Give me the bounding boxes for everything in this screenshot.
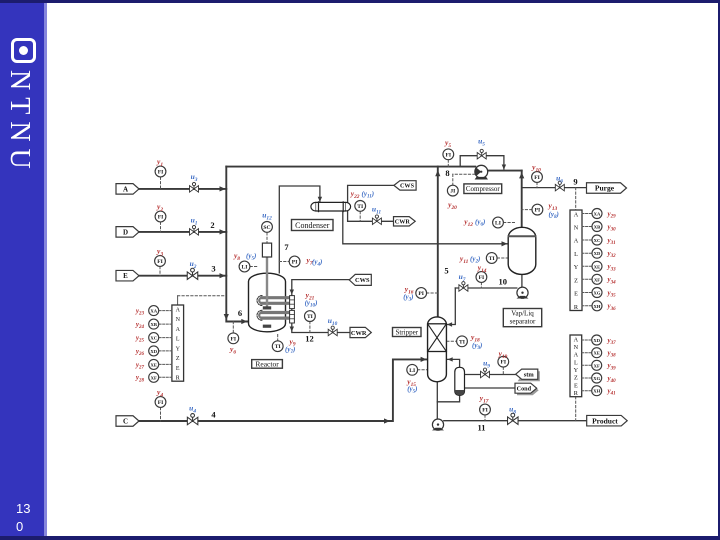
- svg-text:8: 8: [445, 168, 449, 178]
- stub analyzer purge XC: [582, 239, 592, 241]
- svg-text:FI: FI: [482, 408, 488, 414]
- instrument TI y18 (stripper temp): [457, 336, 468, 347]
- svg-text:y29: y29: [607, 210, 617, 220]
- valve u10 reactor CW: [328, 326, 337, 336]
- stub analyzer purge XD: [582, 252, 592, 254]
- instrument analyzer product XG: [592, 373, 602, 383]
- instrument TI y22 (condenser CW temp): [355, 201, 366, 212]
- instrument analyzer reactor feed XC: [149, 333, 159, 343]
- svg-text:L: L: [176, 337, 180, 343]
- instrument analyzer purge XF: [592, 274, 602, 284]
- svg-text:D: D: [123, 228, 128, 236]
- stub FI-y5: [447, 160, 449, 167]
- wire condenser CWR: [348, 211, 394, 221]
- svg-text:Product: Product: [592, 416, 618, 425]
- svg-text:y12: y12: [463, 217, 473, 228]
- stub analyzer reactor feed XE: [159, 363, 172, 365]
- instrument FI y10 (purge): [532, 172, 543, 183]
- svg-text:TI: TI: [459, 339, 465, 345]
- svg-text:u9: u9: [483, 359, 490, 370]
- wire reboiler condensate: [465, 387, 516, 389]
- svg-text:XD: XD: [593, 338, 600, 343]
- svg-text:Z: Z: [574, 277, 578, 284]
- arrow recycle up: [519, 172, 524, 178]
- instrument analyzer reactor feed XE: [149, 359, 159, 369]
- stub FI-A: [160, 177, 162, 189]
- svg-text:Stripper: Stripper: [395, 329, 418, 337]
- svg-text:TI: TI: [489, 256, 495, 262]
- svg-text:5: 5: [444, 266, 448, 276]
- stub SC-agitator: [266, 233, 268, 243]
- wire stripper bottoms: [436, 382, 438, 419]
- svg-text:CWR: CWR: [395, 219, 411, 226]
- svg-text:u10: u10: [328, 316, 338, 327]
- svg-text:y3: y3: [156, 247, 163, 258]
- svg-text:(y5): (y5): [246, 252, 256, 262]
- arrow stream 6 down: [224, 314, 229, 320]
- svg-text:y31: y31: [607, 236, 616, 246]
- wire stream 8 vertical to separator: [521, 171, 523, 228]
- tag feed D: [116, 227, 139, 238]
- svg-text:y34: y34: [607, 276, 617, 286]
- instrument SC agitator u12: [262, 222, 273, 233]
- svg-text:(y5): (y5): [407, 385, 417, 395]
- svg-text:y25: y25: [135, 334, 145, 344]
- stub LI-reactor: [250, 266, 258, 268]
- arrow CW down 2: [290, 327, 294, 332]
- svg-text:y4: y4: [156, 388, 163, 399]
- svg-text:y17: y17: [479, 394, 489, 405]
- svg-text:6: 6: [238, 308, 242, 318]
- compressor: [475, 165, 488, 179]
- stub analyzer product XH: [582, 390, 592, 392]
- svg-text:3: 3: [211, 264, 215, 274]
- svg-text:XA: XA: [594, 212, 601, 217]
- svg-text:FI: FI: [158, 170, 164, 176]
- instrument analyzer reactor feed XD: [149, 346, 159, 356]
- wire D feed to junction: [139, 231, 226, 233]
- svg-text:(y3): (y3): [403, 293, 413, 303]
- svg-text:y10: y10: [531, 163, 541, 174]
- tag feed C: [116, 416, 139, 427]
- svg-text:Z: Z: [574, 375, 578, 382]
- svg-text:y32: y32: [607, 250, 617, 260]
- svg-text:R: R: [176, 376, 180, 382]
- svg-text:y11: y11: [459, 254, 469, 265]
- instrument FI y4 (C feed): [155, 397, 166, 408]
- instrument FI y2 (D feed): [155, 211, 166, 222]
- wire bypass u5: [460, 156, 504, 169]
- svg-text:XG: XG: [594, 291, 601, 296]
- wire stream 6 vertical: [226, 167, 247, 322]
- shadow stm tag: [518, 371, 540, 381]
- svg-text:stm: stm: [524, 372, 535, 379]
- page number 130: [16, 500, 36, 536]
- tag Purge: [587, 183, 627, 194]
- stub analyzer product XE: [582, 352, 592, 354]
- stub analyzer reactor feed XF: [159, 376, 172, 378]
- wire compressor outlet: [487, 170, 521, 172]
- tag condensate: [515, 383, 537, 393]
- svg-text:CWS: CWS: [355, 277, 370, 284]
- svg-text:XB: XB: [151, 322, 157, 327]
- wire reactor CWS: [292, 280, 350, 296]
- svg-text:u7: u7: [459, 272, 466, 283]
- svg-text:FI: FI: [534, 175, 540, 181]
- svg-text:y36: y36: [607, 302, 617, 312]
- valve u1 D feed: [190, 226, 199, 236]
- instrument LI y15 (stripper level): [407, 364, 418, 375]
- svg-text:separator: separator: [510, 318, 536, 326]
- instrument analyzer purge XD: [592, 248, 602, 258]
- instrument TI y9 (reactor temp): [272, 341, 283, 352]
- svg-text:L: L: [574, 359, 578, 366]
- valve u9 steam: [481, 368, 490, 378]
- wire stream 7: [279, 186, 320, 273]
- arrow into reactor: [241, 319, 247, 324]
- stub FI-E: [159, 267, 161, 276]
- svg-text:Z: Z: [176, 356, 180, 362]
- svg-text:y22: y22: [350, 189, 360, 200]
- NTNU vertical wordmark: [3, 70, 35, 166]
- stub FI-D: [160, 222, 162, 232]
- instrument FI y6 (reactor feed): [228, 333, 239, 344]
- stub PI-y16: [427, 292, 438, 294]
- tag feed A: [116, 184, 139, 195]
- tag reactor CWR: [350, 327, 371, 337]
- stub LI-sep: [504, 222, 515, 224]
- svg-text:LI: LI: [495, 221, 501, 227]
- agitator shaft: [266, 257, 268, 306]
- svg-text:A: A: [574, 336, 579, 343]
- instrument PI y7 (reactor pressure): [289, 256, 300, 267]
- stub analyzer purge XB: [582, 226, 592, 228]
- svg-text:y37: y37: [607, 336, 617, 346]
- wire product line: [444, 420, 587, 422]
- svg-text:LI: LI: [409, 368, 415, 374]
- svg-text:XC: XC: [594, 238, 601, 243]
- instrument LI y12 (sep level): [493, 217, 504, 228]
- svg-text:N: N: [574, 344, 579, 351]
- stub TI-y18: [447, 340, 457, 342]
- svg-text:FI: FI: [446, 152, 452, 158]
- stub FI-y10: [536, 182, 538, 187]
- instrument analyzer purge XG: [592, 288, 602, 298]
- arrow reboiler return: [448, 357, 453, 361]
- svg-text:Y: Y: [574, 264, 579, 271]
- label box Stripper: [393, 328, 422, 337]
- valve u7 separator liquid: [459, 282, 468, 292]
- label box Vap/Liq separator: [503, 309, 541, 327]
- svg-text:(y9): (y9): [472, 342, 482, 352]
- valve u8 product: [508, 413, 519, 424]
- instrument analyzer reactor feed XB: [149, 319, 159, 329]
- svg-text:XE: XE: [594, 351, 600, 356]
- svg-text:y6: y6: [229, 345, 236, 356]
- svg-text:(y8): (y8): [549, 211, 559, 221]
- svg-text:N: N: [574, 225, 579, 232]
- svg-text:L: L: [574, 251, 578, 258]
- stub analyzer reactor feed XB: [159, 323, 172, 325]
- svg-text:XF: XF: [151, 375, 157, 380]
- valve u11 condenser CW: [372, 215, 381, 225]
- instrument FI y17 (product flow): [480, 404, 491, 415]
- reactor coil 2: [259, 313, 289, 319]
- wire stream 10 down to stripper: [447, 288, 455, 325]
- tag condenser CWR: [394, 217, 416, 226]
- svg-text:9: 9: [573, 177, 577, 187]
- arrow CW down: [290, 290, 294, 295]
- stub analyzer0 to line: [178, 295, 226, 297]
- stub analyzer reactor feed XC: [159, 337, 172, 339]
- stub PI-y13: [522, 209, 532, 211]
- svg-text:u6: u6: [556, 174, 563, 185]
- svg-text:(y4): (y4): [312, 258, 322, 268]
- instrument TI y11 (sep temp): [486, 253, 497, 264]
- svg-text:A: A: [123, 185, 128, 193]
- svg-text:y38: y38: [607, 349, 617, 359]
- stub TI-y22: [359, 212, 361, 222]
- wire E feed to junction: [139, 275, 226, 277]
- svg-text:u3: u3: [191, 172, 198, 183]
- stub analyzer product XF: [582, 364, 592, 366]
- wire reboiler bottom: [437, 395, 459, 402]
- wire separator bottoms: [521, 275, 523, 288]
- svg-text:(y6): (y6): [475, 218, 485, 228]
- arrow stream 5 up: [435, 170, 440, 176]
- svg-text:XE: XE: [151, 362, 157, 367]
- instrument analyzer product XD: [592, 335, 602, 345]
- instrument analyzer reactor feed XF: [149, 372, 159, 382]
- svg-text:A: A: [574, 352, 579, 359]
- svg-text:Y: Y: [574, 367, 579, 374]
- tag feed E: [116, 270, 139, 281]
- arrow into stripper: [421, 357, 427, 362]
- arrow E feed: [220, 273, 226, 278]
- svg-text:PI: PI: [418, 291, 424, 297]
- wire recycle top line: [226, 166, 475, 168]
- svg-text:u8: u8: [509, 405, 516, 416]
- stub JI-compressor h: [453, 173, 475, 175]
- svg-text:Compressor: Compressor: [466, 185, 501, 193]
- instrument analyzer purge XH: [592, 301, 602, 311]
- valve u3 A feed: [190, 183, 199, 193]
- valve u5 recycle: [477, 149, 486, 159]
- svg-text:XG: XG: [593, 376, 600, 381]
- svg-text:XB: XB: [594, 225, 600, 230]
- stub analyzer reactor feed XA: [159, 310, 172, 312]
- stub FI-y14: [480, 283, 482, 288]
- stub LI-stripper: [418, 369, 428, 371]
- svg-text:(y11): (y11): [362, 190, 375, 200]
- NTNU logo: [11, 38, 36, 63]
- wire condensate to separator: [343, 211, 508, 244]
- stub analyzer2 sample: [575, 397, 577, 421]
- svg-text:y28: y28: [135, 374, 145, 384]
- svg-text:Purge: Purge: [595, 184, 615, 193]
- instrument analyzer product XH: [592, 386, 602, 396]
- svg-text:u11: u11: [372, 205, 382, 216]
- svg-text:XC: XC: [150, 336, 157, 341]
- svg-text:2: 2: [210, 220, 214, 230]
- wire stream 5: [437, 167, 439, 318]
- wire CW between coils: [291, 309, 293, 311]
- tag reactor CWS: [349, 274, 371, 285]
- svg-text:Cond: Cond: [517, 385, 532, 392]
- instrument PI y16 (stripper pressure): [416, 288, 427, 299]
- coil header box lower: [290, 310, 295, 323]
- instrument FI y3 (E feed): [155, 256, 166, 267]
- instrument FI y5 (recycle): [443, 149, 454, 160]
- pump separator bottoms: [517, 287, 529, 298]
- stub analyzer product XG: [582, 377, 592, 379]
- svg-text:LI: LI: [242, 265, 248, 271]
- svg-text:XF: XF: [594, 363, 600, 368]
- svg-text:XA: XA: [150, 309, 157, 314]
- stub PI-reactor: [279, 261, 289, 263]
- svg-text:y26: y26: [135, 347, 145, 357]
- stripper packed section: [428, 324, 447, 352]
- arrow C feed: [384, 418, 390, 423]
- wire reboiler return: [447, 359, 460, 367]
- stub analyzer purge XG: [582, 292, 592, 294]
- svg-text:y20: y20: [447, 200, 457, 211]
- arrow D feed: [220, 229, 226, 234]
- svg-text:E: E: [574, 382, 578, 389]
- svg-text:JI: JI: [450, 189, 455, 195]
- wire purge line: [522, 187, 587, 189]
- reboiler: [455, 367, 465, 395]
- stripper column: [428, 317, 447, 382]
- svg-text:A: A: [574, 238, 579, 245]
- valve u2 E feed: [187, 268, 198, 279]
- svg-text:y8: y8: [233, 251, 240, 262]
- instrument FI y14 (sep underflow): [476, 272, 487, 283]
- svg-text:FI: FI: [158, 400, 164, 406]
- instrument FI y19 (steam flow): [498, 356, 509, 367]
- svg-text:XD: XD: [150, 349, 157, 354]
- svg-text:y33: y33: [607, 263, 617, 273]
- svg-text:CWS: CWS: [400, 183, 415, 190]
- svg-text:u4: u4: [189, 404, 196, 415]
- instrument analyzer purge XA: [592, 209, 602, 219]
- svg-text:(y7): (y7): [285, 346, 295, 356]
- svg-text:y30: y30: [607, 223, 617, 233]
- svg-text:y39: y39: [607, 362, 617, 372]
- svg-text:y2: y2: [156, 202, 163, 213]
- svg-text:Condenser: Condenser: [295, 221, 330, 230]
- reactor coil 1: [259, 298, 289, 304]
- svg-text:y35: y35: [607, 289, 617, 299]
- svg-text:FI: FI: [501, 360, 507, 366]
- analyzer reactor feed: [172, 305, 184, 381]
- svg-text:CWR: CWR: [351, 330, 367, 337]
- shadow Cond tag: [517, 385, 539, 395]
- instrument PI y13 (sep pressure): [532, 204, 543, 215]
- tag Product: [587, 415, 628, 426]
- svg-text:u2: u2: [190, 259, 197, 270]
- instrument analyzer product XF: [592, 360, 602, 370]
- separator vessel: [508, 227, 536, 274]
- stub TI-sep: [497, 257, 508, 259]
- stub analyzer0 up: [177, 296, 179, 305]
- stub analyzer product XD: [582, 339, 592, 341]
- svg-text:A: A: [574, 211, 579, 218]
- svg-text:E: E: [123, 272, 128, 280]
- label box Reactor: [252, 360, 283, 369]
- stub analyzer purge XA: [582, 213, 592, 215]
- svg-text:u5: u5: [478, 137, 485, 148]
- arrow into stripper right: [447, 322, 452, 326]
- instrument analyzer purge XB: [592, 222, 602, 232]
- instrument JI y20 (compressor work): [447, 185, 458, 196]
- pump stripper bottoms: [432, 419, 444, 430]
- svg-text:FI: FI: [157, 259, 163, 265]
- svg-text:10: 10: [499, 277, 508, 287]
- svg-text:XH: XH: [594, 304, 601, 309]
- valve u4 C feed: [187, 414, 198, 425]
- wire reactor CWR: [292, 323, 350, 333]
- arrow A feed: [220, 186, 226, 191]
- stub analyzer purge XE: [582, 265, 592, 267]
- svg-text:FI: FI: [479, 275, 485, 281]
- valve u6 purge: [555, 181, 564, 191]
- svg-text:y23: y23: [135, 307, 145, 317]
- svg-text:TI: TI: [307, 314, 313, 320]
- stub TI-y9: [277, 335, 279, 341]
- stub JI-compressor v: [452, 174, 454, 185]
- wire steam line: [465, 374, 517, 376]
- svg-text:11: 11: [477, 423, 485, 433]
- svg-text:7: 7: [284, 242, 289, 252]
- instrument TI y21 (reactor CW temp): [305, 311, 316, 322]
- stub analyzer1 sample: [575, 188, 577, 210]
- arrow bypass down: [502, 165, 506, 170]
- svg-text:SC: SC: [263, 225, 270, 231]
- svg-text:Reactor: Reactor: [255, 360, 279, 369]
- instrument LI y8 (reactor level): [239, 261, 250, 272]
- stub FI-y17: [484, 415, 486, 421]
- svg-text:Y: Y: [176, 346, 181, 352]
- instrument analyzer purge XE: [592, 261, 602, 271]
- svg-text:y40: y40: [607, 374, 617, 384]
- svg-text:FI: FI: [158, 215, 164, 221]
- svg-text:4: 4: [211, 410, 216, 420]
- svg-text:XF: XF: [594, 277, 600, 282]
- svg-text:TI: TI: [357, 204, 363, 210]
- svg-text:XD: XD: [594, 251, 601, 256]
- stub analyzer purge XH: [582, 305, 592, 307]
- svg-text:y24: y24: [135, 321, 145, 331]
- coil header box upper: [290, 296, 295, 309]
- svg-text:XH: XH: [593, 389, 600, 394]
- svg-text:A: A: [176, 307, 181, 313]
- svg-text:C: C: [123, 418, 128, 426]
- svg-text:y41: y41: [607, 387, 616, 397]
- instrument analyzer reactor feed XA: [149, 306, 159, 316]
- arrow into condenser: [318, 197, 322, 202]
- svg-text:y5: y5: [444, 138, 451, 149]
- agitator motor box: [262, 243, 271, 257]
- svg-text:XE: XE: [594, 264, 600, 269]
- svg-text:12: 12: [305, 334, 314, 344]
- tag condenser CWS: [394, 181, 416, 190]
- svg-text:E: E: [176, 366, 180, 372]
- analyzer purge: [570, 210, 582, 311]
- svg-text:PI: PI: [292, 260, 298, 266]
- stub TI-y21: [309, 322, 311, 333]
- label box Compressor: [464, 184, 502, 194]
